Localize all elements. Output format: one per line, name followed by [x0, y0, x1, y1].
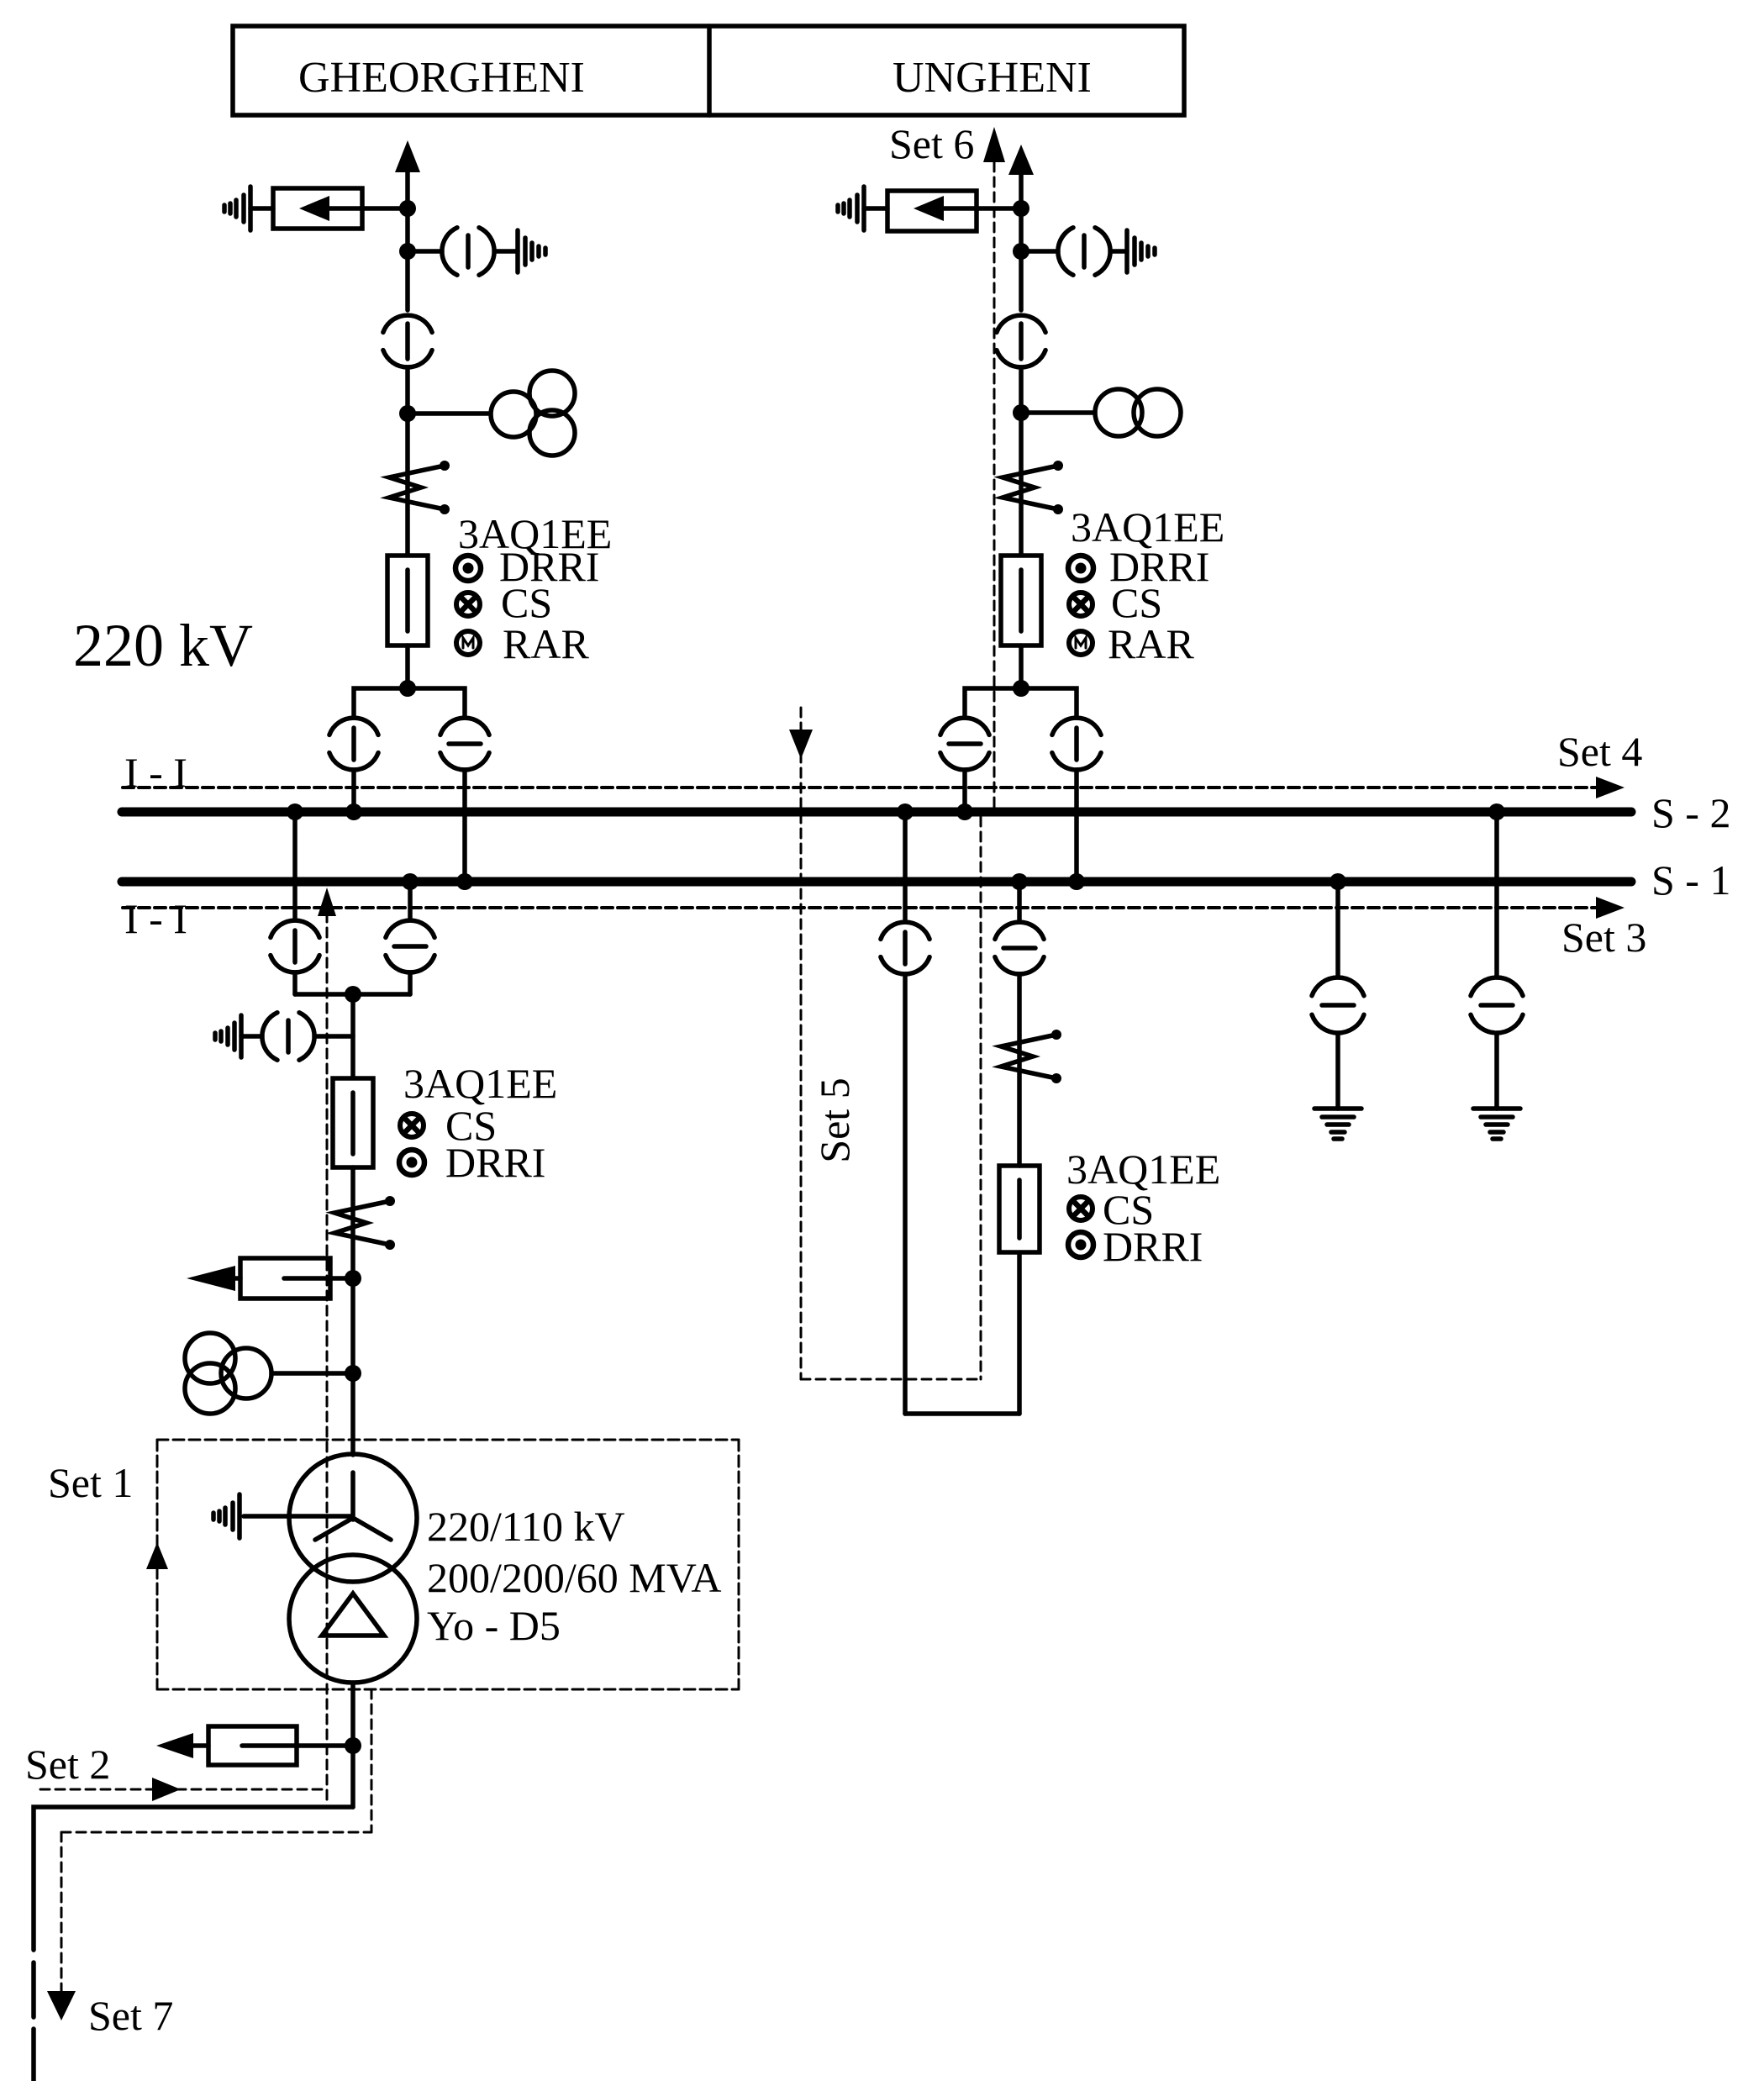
- wire: [1335, 887, 1340, 977]
- coupler indicator CS: [1069, 1197, 1093, 1220]
- bay disconnector S-2 side (closed): [271, 920, 319, 937]
- node on S-1: [456, 873, 473, 890]
- disconnector with earthing knives: [385, 1196, 395, 1206]
- wire feeder mid: [405, 367, 410, 556]
- svg-text:Set 4: Set 4: [1557, 728, 1642, 775]
- wire feeder upper: [405, 168, 410, 310]
- voltage transformer branch: [1021, 249, 1058, 254]
- earthing disconnector (open): [1471, 977, 1523, 996]
- ground (VT): [239, 1015, 244, 1057]
- node on S-1: [1330, 873, 1346, 890]
- svg-text:200/200/60 MVA: 200/200/60 MVA: [427, 1554, 722, 1601]
- earthing disconnector (open): [1312, 977, 1364, 996]
- set1 dashed vertical path: [326, 913, 329, 1805]
- wire from S-2: [292, 817, 298, 920]
- coupler disconnector with earthing knives: [1051, 1030, 1061, 1040]
- set7 dashed path: [371, 1689, 373, 1832]
- svg-text:DRRI: DRRI: [445, 1139, 545, 1186]
- svg-text:I - I: I - I: [124, 895, 187, 942]
- node on S-2: [345, 803, 362, 820]
- svg-text:S - 1: S - 1: [1651, 856, 1730, 904]
- svg-text:CS: CS: [1111, 579, 1162, 626]
- indicator DRRI: [455, 556, 481, 581]
- wire coupler left lower: [903, 974, 908, 1414]
- busbar S-1: [122, 877, 1631, 887]
- wire bay main: [350, 994, 355, 1078]
- station name box: [233, 26, 1184, 115]
- disconnector with earthing knives: [1053, 461, 1063, 471]
- wire feeder mid: [1019, 367, 1024, 556]
- set5 arrow down: [789, 730, 813, 759]
- node on S-1: [1068, 873, 1085, 890]
- node on S-1: [1011, 873, 1028, 890]
- node VT tap: [399, 243, 416, 260]
- node on S-2: [897, 803, 914, 820]
- svg-text:Set 1: Set 1: [48, 1459, 133, 1506]
- wire coupler right upper: [1017, 887, 1022, 922]
- busbar disconnector to S-1 (open): [440, 718, 489, 735]
- current transformer (2 cores): [1021, 410, 1095, 415]
- LV wire: [350, 1683, 355, 1807]
- circuit breaker 3AQ1EE: [333, 1078, 373, 1167]
- set5 dashed left edge: [800, 708, 803, 1379]
- wire bay main 2: [350, 1167, 355, 1455]
- coupler circuit breaker 3AQ1EE: [999, 1166, 1040, 1252]
- busbar S-2: [122, 808, 1631, 817]
- set6 dashed path: [993, 162, 996, 808]
- ground: [1314, 1106, 1361, 1111]
- node transducer tap: [345, 1270, 361, 1287]
- wire: [1494, 817, 1499, 977]
- voltage transformer branch: [408, 249, 442, 254]
- arrow Set 3: [1596, 897, 1624, 919]
- section line I-I top (Set 4 path): [123, 786, 1596, 789]
- coupler U bottom: [905, 1411, 1019, 1416]
- busbar disconnector to S-1 (closed): [1052, 718, 1101, 735]
- disconnector with earthing knives: [440, 461, 450, 471]
- svg-text:3AQ1EE: 3AQ1EE: [403, 1060, 557, 1107]
- neutral ground: [244, 1514, 351, 1519]
- node on S-2: [1488, 803, 1505, 820]
- set6 arrow: [983, 127, 1005, 162]
- wire below breaker: [1019, 645, 1024, 688]
- transformer secondary (delta): [289, 1555, 417, 1683]
- wire feeder upper: [1019, 171, 1024, 310]
- node merge: [345, 986, 361, 1003]
- svg-text:Set 7: Set 7: [88, 1992, 173, 2039]
- bay disconnector S-1 side (open): [386, 920, 434, 937]
- svg-text:Set 3: Set 3: [1561, 914, 1646, 961]
- svg-text:Yo - D5: Yo - D5: [427, 1602, 561, 1649]
- indicator DRRI: [399, 1150, 424, 1175]
- wire from S-1: [408, 887, 413, 920]
- set5 dashed right edge: [980, 817, 982, 1379]
- coupler disconnector S-2 side (closed): [881, 922, 929, 939]
- svg-text:220/110 kV: 220/110 kV: [427, 1503, 625, 1550]
- svg-text:RAR: RAR: [503, 620, 589, 667]
- node arrester tap: [1013, 200, 1029, 217]
- transducer arrow 2: [156, 1733, 193, 1758]
- feeder arrow up: [1008, 145, 1034, 175]
- svg-text:UNGHENI: UNGHENI: [893, 54, 1092, 102]
- indicator DRRI: [1068, 556, 1093, 581]
- LV continuation dashes: [31, 1962, 36, 2017]
- svg-text:Set 6: Set 6: [889, 120, 974, 167]
- transducer arrow: [187, 1266, 235, 1291]
- current transformer (3 cores): [185, 1333, 235, 1383]
- bay branch bar: [354, 688, 465, 718]
- ground (VT): [515, 230, 520, 272]
- coupler disconnector S-1 side (open): [995, 922, 1044, 939]
- ground (arrester): [250, 206, 273, 211]
- bay branch bar: [965, 688, 1077, 718]
- wire: [1335, 1033, 1340, 1109]
- node on S-1: [402, 873, 419, 890]
- node below breaker: [399, 680, 416, 697]
- LV corner wire: [34, 1807, 353, 1950]
- node CT tap: [399, 405, 416, 422]
- node CT tap: [345, 1365, 361, 1382]
- node on S-2: [956, 803, 973, 820]
- voltage transformer branch: [314, 1034, 353, 1039]
- svg-text:GHEORGHENI: GHEORGHENI: [298, 54, 585, 102]
- node LV tap: [345, 1737, 361, 1754]
- ground: [1473, 1106, 1520, 1111]
- svg-text:CS: CS: [501, 579, 552, 626]
- arrow in counter box: [299, 196, 329, 221]
- svg-text:Set 5: Set 5: [811, 1077, 858, 1162]
- set1 box arrow up: [146, 1542, 168, 1569]
- svg-text:DRRI: DRRI: [1103, 1223, 1203, 1270]
- svg-text:S - 2: S - 2: [1651, 789, 1730, 836]
- ground (arrester): [864, 206, 887, 211]
- set2 dashed path: [40, 1789, 326, 1791]
- feeder arrow up: [395, 140, 420, 172]
- disconnector (closed) on feeder: [997, 315, 1045, 332]
- svg-text:Set 2: Set 2: [25, 1741, 110, 1788]
- coupler indicator DRRI: [1068, 1232, 1093, 1257]
- node VT tap: [1013, 243, 1029, 260]
- svg-text:I - I: I - I: [124, 749, 187, 796]
- circuit breaker 3AQ1EE: [387, 556, 428, 645]
- wire: [1494, 1033, 1499, 1109]
- transducer box: [240, 1258, 330, 1299]
- busbar disconnector to S-2 (closed): [329, 718, 378, 735]
- svg-text:RAR: RAR: [1108, 620, 1194, 667]
- circuit breaker 3AQ1EE: [1001, 556, 1041, 645]
- merge bar: [295, 992, 410, 997]
- busbar disconnector to S-2 (open): [940, 718, 989, 735]
- wire coupler right lower: [1017, 1252, 1022, 1414]
- station name divider: [707, 26, 712, 115]
- arrow in counter box: [914, 196, 944, 221]
- set2 arrow right: [152, 1778, 181, 1801]
- indicator RAR: [1069, 631, 1093, 655]
- set7 arrow down: [47, 1991, 76, 2020]
- ground (VT): [1124, 230, 1129, 272]
- wire coupler left upper: [903, 817, 908, 922]
- current transformer (3 cores): [408, 411, 491, 416]
- set5 dashed bottom edge: [801, 1378, 981, 1381]
- node arrester tap: [399, 200, 416, 217]
- indicator CS: [456, 593, 480, 616]
- indicator CS: [400, 1114, 424, 1137]
- wire coupler mid: [1017, 974, 1022, 1166]
- disconnector (closed) on feeder: [383, 315, 432, 332]
- wire below breaker: [405, 645, 410, 688]
- svg-text:220 kV: 220 kV: [73, 612, 253, 679]
- node on S-2: [287, 803, 303, 820]
- section line I-I bottom (Set 3 path): [123, 906, 1596, 909]
- transducer box 2: [208, 1726, 297, 1765]
- arrow Set 4: [1596, 777, 1624, 798]
- surge arrester counter box: [273, 188, 362, 229]
- indicator RAR: [456, 631, 480, 655]
- set1 arrow up: [318, 888, 336, 916]
- node below breaker: [1013, 680, 1029, 697]
- surge arrester counter box: [887, 191, 977, 231]
- node CT tap: [1013, 404, 1029, 421]
- indicator CS: [1069, 593, 1093, 616]
- transformer primary (star): [289, 1454, 417, 1582]
